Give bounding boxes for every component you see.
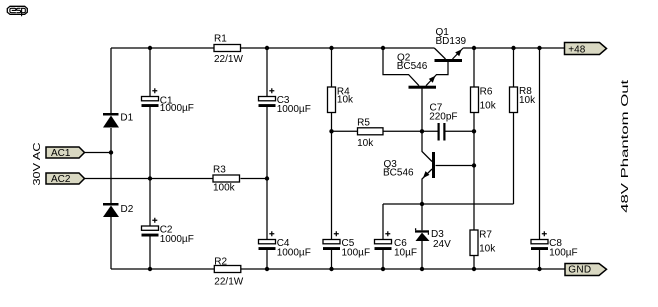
wire top rail to C8: [539, 48, 541, 240]
svg-text:D1: D1: [120, 112, 133, 123]
svg-text:R3: R3: [213, 164, 226, 175]
resistor R8: [510, 87, 518, 113]
svg-text:D2: D2: [121, 204, 134, 215]
wire Q1 collector leg: [434, 48, 445, 59]
wire left column rail to D1: [110, 48, 112, 113]
resistor R3: [213, 175, 240, 182]
wire D3 top lead: [421, 204, 423, 230]
svg-text:10k: 10k: [479, 243, 496, 254]
wire R6 to R7 through C7 and Q3 base nodes: [473, 113, 475, 231]
svg-text:100µF: 100µF: [549, 247, 578, 258]
svg-text:+48: +48: [568, 45, 585, 56]
wire R7 to bottom rail: [473, 256, 475, 270]
resistor R4: [328, 87, 336, 113]
wire Q2 collector to top rail: [383, 48, 419, 86]
svg-text:R5: R5: [357, 117, 370, 128]
resistor R1: [214, 45, 241, 52]
node top rail / R4: [329, 46, 333, 50]
capacitor C4: [259, 231, 276, 250]
port AC1: [46, 147, 85, 158]
node top rail / C1: [148, 46, 152, 50]
resistor R6: [471, 87, 479, 113]
wire D3 node row to R8 corner: [383, 203, 514, 205]
node bottom rail / C5: [329, 267, 333, 271]
wire R5 right to C7 left plate: [383, 130, 438, 132]
svg-text:30V AC: 30V AC: [32, 143, 43, 186]
svg-text:GND: GND: [568, 265, 591, 276]
resistor R2: [214, 266, 241, 273]
ground port GND: [565, 264, 607, 276]
capacitor C2: [142, 218, 159, 237]
wire R5 node to R5 left: [332, 130, 358, 132]
svg-text:1000µF: 1000µF: [160, 103, 194, 114]
node top rail / R6: [472, 46, 476, 50]
wire top rail to R4: [331, 48, 333, 87]
svg-text:BD139: BD139: [436, 36, 467, 47]
node bottom rail / C4: [265, 267, 269, 271]
node top rail / Q2 collector: [381, 46, 385, 50]
wire C4 to bottom rail: [266, 250, 268, 270]
svg-text:22/1W: 22/1W: [214, 54, 243, 65]
wire bottom rail left segment: [111, 268, 214, 270]
svg-text:R2: R2: [214, 257, 227, 268]
wire R4 to C5 through R5 node: [331, 113, 333, 240]
node top rail / R8: [511, 46, 515, 50]
wire C6 top lead: [382, 204, 384, 240]
port AC2: [46, 173, 85, 184]
node bottom rail / C6: [381, 267, 385, 271]
diode D1: [103, 113, 119, 128]
wire top rail left segment: [111, 47, 214, 49]
capacitor C1: [142, 88, 159, 107]
wire Q2 emitter to Q1 base: [426, 62, 448, 86]
wire C3 to C4 through R3 node: [266, 107, 268, 240]
wire top rail to C3: [266, 48, 268, 97]
svg-text:R1: R1: [214, 34, 227, 45]
svg-text:BC546: BC546: [397, 61, 428, 72]
svg-text:10k: 10k: [480, 101, 497, 112]
node Q3 base / R6-R7: [472, 163, 476, 167]
node AC1 / diode link: [109, 150, 113, 154]
svg-text:BC546: BC546: [383, 168, 414, 179]
node top rail / C3: [265, 46, 269, 50]
wire C2 to bottom rail: [149, 237, 151, 270]
wire top rail to R8: [513, 48, 515, 87]
wire C5 to bottom rail: [331, 250, 333, 270]
capacitor C5: [323, 231, 340, 250]
wire Q2 base to R5/C7 node: [421, 89, 423, 132]
wire Q3 collector to R5/C7 node: [422, 131, 432, 161]
wire AC2 tag to R3 left: [84, 178, 213, 180]
svg-text:100k: 100k: [213, 183, 236, 194]
node C7 / R6 column: [472, 129, 476, 133]
wire top rail middle segment: [241, 47, 435, 49]
svg-text:AC1: AC1: [51, 148, 71, 159]
svg-text:48V Phantom Out: 48V Phantom Out: [620, 79, 631, 212]
node bottom rail / C2: [148, 267, 152, 271]
capacitor C7: [438, 123, 446, 141]
wire D3 to bottom rail: [421, 241, 423, 269]
svg-text:10µF: 10µF: [394, 247, 417, 258]
node R4-R5: [329, 129, 333, 133]
node Q2 base / C7 / Q3 collector: [420, 129, 424, 133]
capacitor C6: [375, 231, 392, 250]
wire Q3 emitter down to D3 node: [422, 169, 432, 204]
svg-text:22/1W: 22/1W: [214, 276, 243, 287]
wire AC1 tag to node: [84, 152, 111, 154]
transistor Q3 BC546: [423, 152, 435, 178]
svg-text:AC2: AC2: [51, 174, 71, 185]
wire top rail right segment: [463, 47, 565, 49]
capacitor C8: [531, 231, 548, 250]
resistor R5: [358, 128, 384, 135]
port +48: [565, 43, 607, 55]
wire D1 anode to D2 cathode through AC1 node: [110, 128, 112, 203]
svg-text:24V: 24V: [433, 239, 451, 250]
wire C8 to bottom rail: [539, 250, 541, 270]
wire R8 bottom lead: [513, 113, 515, 205]
diode D2: [103, 203, 119, 217]
wire C1 to C2 through AC2 node: [149, 107, 151, 226]
transistor Q1 BD139: [435, 49, 463, 62]
wire bottom rail right segment: [241, 268, 566, 270]
svg-text:R6: R6: [480, 87, 493, 98]
wire Q3 base to R6 column: [436, 165, 475, 167]
svg-text:1000µF: 1000µF: [160, 234, 194, 245]
ESP logo: [7, 6, 27, 16]
node bottom rail / C8: [537, 267, 541, 271]
wire D2 anode to bottom rail: [110, 217, 112, 269]
zener diode D3: [415, 228, 430, 241]
node bottom rail / R7: [472, 267, 476, 271]
svg-text:100µF: 100µF: [342, 247, 371, 258]
node R3 / C3-C4: [265, 176, 269, 180]
svg-text:10k: 10k: [357, 138, 374, 149]
resistor R7: [470, 230, 478, 256]
wire C7 right plate to R6 column: [446, 130, 475, 132]
svg-text:10k: 10k: [337, 95, 354, 106]
svg-text:1000µF: 1000µF: [277, 247, 311, 258]
svg-text:R7: R7: [479, 230, 492, 241]
wire Q1 emitter leg: [453, 48, 464, 59]
wire top rail to R6: [473, 48, 475, 87]
svg-text:1000µF: 1000µF: [277, 104, 311, 115]
node bottom rail / D3: [420, 267, 424, 271]
svg-text:220pF: 220pF: [429, 112, 457, 123]
wire top rail to C1: [149, 48, 151, 97]
svg-text:10k: 10k: [519, 95, 536, 106]
wire C6 to bottom rail: [382, 250, 384, 270]
node AC2 / C1-C2: [148, 176, 152, 180]
node top rail / C8: [537, 46, 541, 50]
wire R3 right to C3/C4 node: [241, 178, 268, 180]
node Q3 emitter / D3 / R8: [420, 202, 424, 206]
transistor Q2 BC546: [409, 76, 437, 89]
capacitor C3: [259, 88, 276, 107]
